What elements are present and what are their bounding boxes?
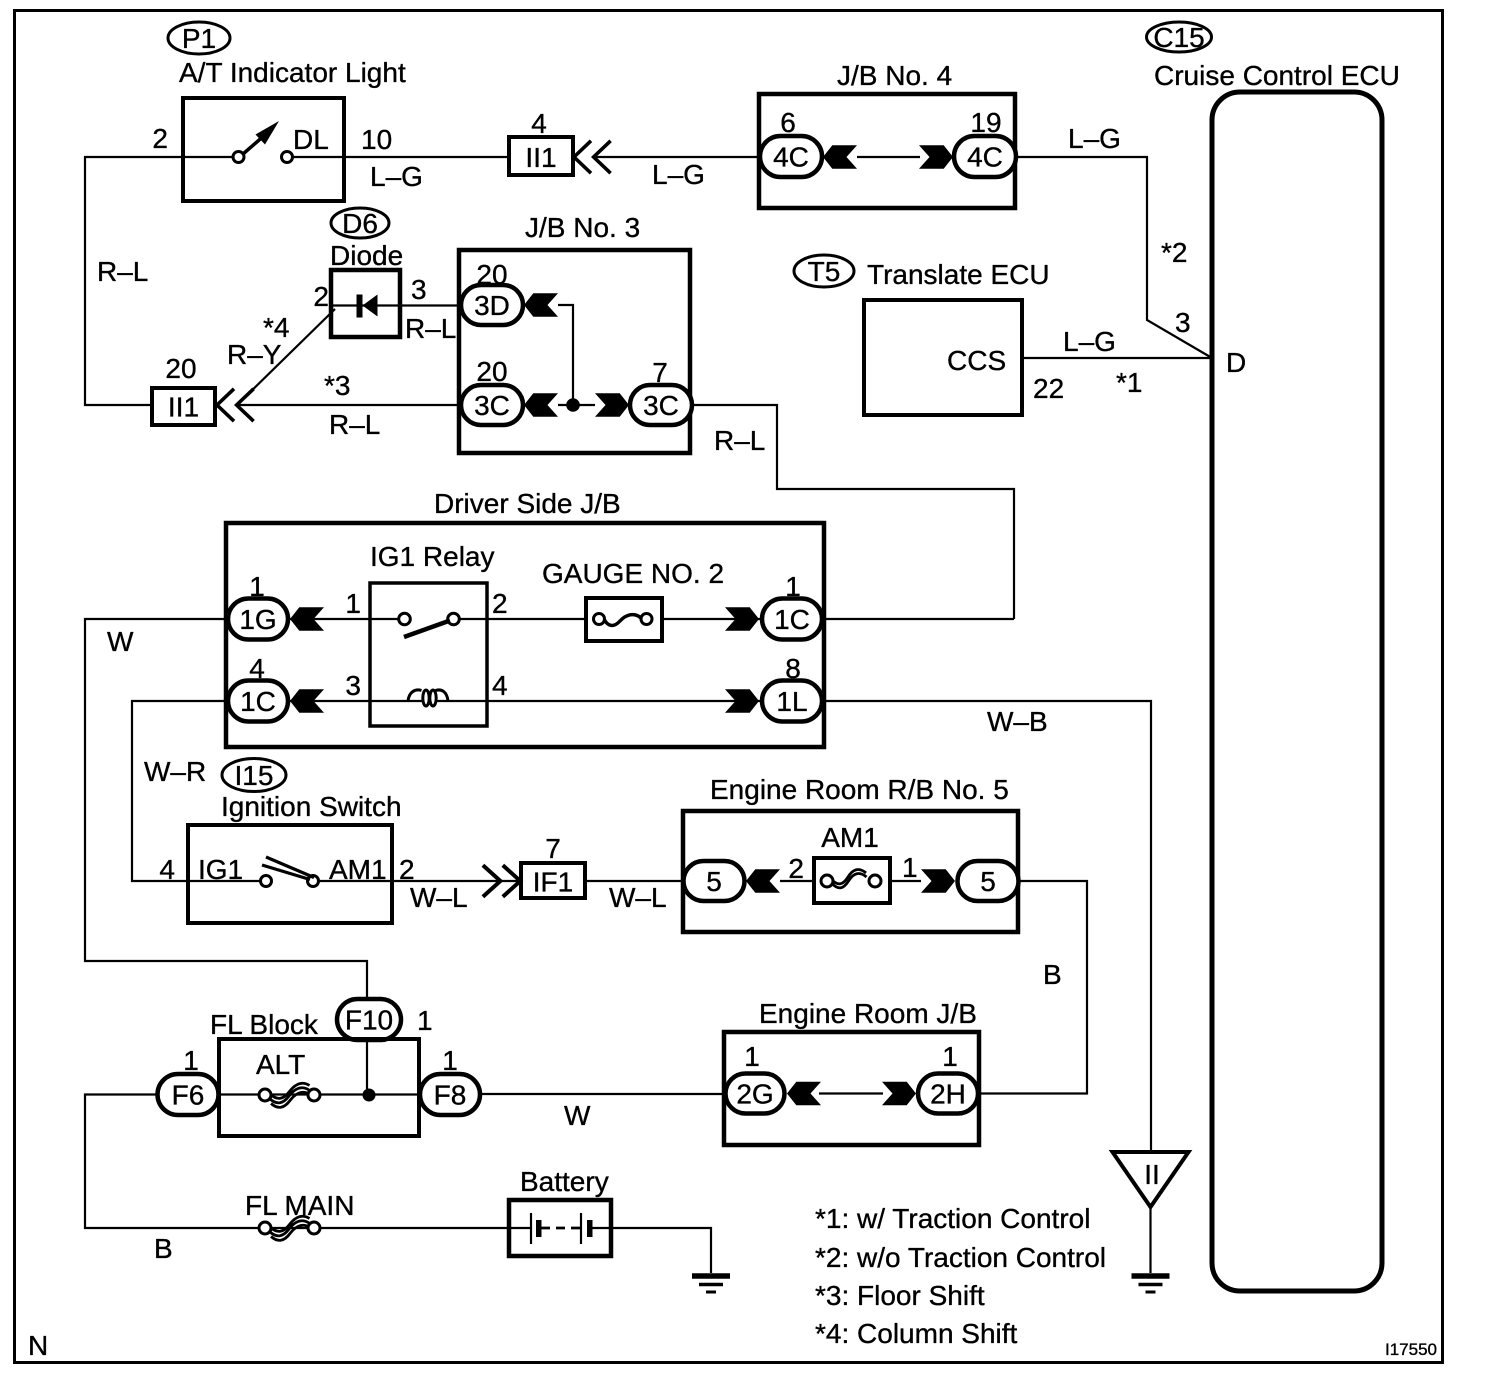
pin 4 ignition xyxy=(159,854,175,885)
wire R-L from A/T pin 2 to II1 xyxy=(85,157,183,405)
svg-text:4C: 4C xyxy=(967,142,1003,173)
wire B 5 to 2H xyxy=(979,881,1087,1094)
label *4 xyxy=(263,312,289,343)
svg-text:20: 20 xyxy=(165,353,196,384)
relay contact left xyxy=(399,613,411,625)
label CCS xyxy=(947,345,1006,376)
svg-text:B: B xyxy=(154,1233,173,1264)
svg-text:7: 7 xyxy=(545,833,561,864)
connector oval F6 xyxy=(158,1074,219,1115)
pin 20 3C xyxy=(476,356,507,387)
note *2 xyxy=(815,1242,1106,1273)
svg-text:R–L: R–L xyxy=(329,409,380,440)
label Driver Side J/B xyxy=(434,488,621,519)
svg-text:DL: DL xyxy=(293,124,329,155)
wire R-L 3C to 1C xyxy=(692,405,1014,619)
component ID I15 xyxy=(222,759,286,792)
svg-text:19: 19 xyxy=(970,107,1001,138)
svg-text:2: 2 xyxy=(152,123,168,154)
ignition contact right xyxy=(308,876,319,887)
diode symbol xyxy=(357,295,378,318)
svg-text:AM1: AM1 xyxy=(821,822,879,853)
pin 4 1C xyxy=(249,653,265,684)
wire between 3C chevrons xyxy=(558,404,595,406)
label *2 xyxy=(1161,237,1187,268)
svg-text:R–L: R–L xyxy=(97,256,148,287)
svg-text:1: 1 xyxy=(249,571,265,602)
ignition switch lever xyxy=(262,857,314,880)
A/T indicator light box P1 xyxy=(183,98,344,201)
wire 1G to relay xyxy=(288,618,370,620)
svg-text:W: W xyxy=(564,1100,591,1131)
chevron into 1G xyxy=(290,607,324,631)
label Engine Room J/B xyxy=(759,998,977,1029)
label A/T Indicator Light xyxy=(179,57,406,88)
svg-text:W: W xyxy=(107,626,134,657)
label L-G right xyxy=(1068,123,1121,154)
label B right xyxy=(1043,959,1062,990)
pin 8 1L xyxy=(785,653,801,684)
connector II1 (top) box xyxy=(509,137,573,175)
wire through ignition switch xyxy=(188,880,392,882)
label N xyxy=(28,1330,48,1361)
pin 4 II1 xyxy=(531,108,547,139)
FL block box xyxy=(219,1039,419,1136)
label FL Block xyxy=(210,1009,319,1040)
chevron out to 1C right xyxy=(725,607,759,631)
svg-text:2: 2 xyxy=(492,588,508,619)
connector oval 1C left xyxy=(228,681,288,722)
connector II1 (bottom) box xyxy=(152,388,215,425)
label Translate ECU xyxy=(867,259,1050,290)
wire through A/T switch xyxy=(183,156,344,158)
label J/B No. 4 xyxy=(837,60,952,91)
svg-text:2G: 2G xyxy=(736,1079,773,1110)
wire 5 to AM1 fuse xyxy=(780,880,814,882)
pin 1 F10 xyxy=(417,1005,433,1036)
svg-text:W–L: W–L xyxy=(609,882,667,913)
chevron into 1C left xyxy=(290,689,324,713)
svg-text:7: 7 xyxy=(652,357,668,388)
wire L-G A/T to II1 connector xyxy=(344,156,509,158)
pin 1 R/B5 xyxy=(902,852,918,883)
pin 3 relay xyxy=(345,670,361,701)
chevron out to 2H xyxy=(882,1082,916,1106)
label Cruise Control ECU xyxy=(1154,60,1400,91)
svg-text:22: 22 xyxy=(1033,373,1064,404)
wire L-G CCS to pin D xyxy=(1022,357,1212,359)
wire inside J/B No.4 xyxy=(857,156,920,158)
label IG1 Relay xyxy=(370,541,495,572)
wire L-G II1 to J/B No.4 xyxy=(594,156,760,158)
label B battery xyxy=(154,1233,173,1264)
chevron into 4C left xyxy=(823,145,857,169)
svg-text:1: 1 xyxy=(744,1041,760,1072)
pin 1 2H xyxy=(942,1041,958,1072)
pin 20 3D xyxy=(476,259,507,290)
label W-L right xyxy=(609,882,667,913)
junction block J/B No.4 box xyxy=(759,94,1015,208)
junction dot J/B No.3 xyxy=(566,398,580,412)
connector IF1 box xyxy=(521,863,585,898)
double open chevron at II1 bottom xyxy=(217,389,254,421)
svg-text:4: 4 xyxy=(492,670,508,701)
svg-text:1: 1 xyxy=(942,1041,958,1072)
translate ECU box xyxy=(864,300,1022,415)
relay coil symbol xyxy=(408,690,448,706)
label *1 xyxy=(1116,367,1142,398)
pin 3 label xyxy=(1175,307,1191,338)
IG1 relay box xyxy=(370,583,487,726)
svg-text:3: 3 xyxy=(1175,307,1191,338)
svg-text:D6: D6 xyxy=(342,208,378,239)
svg-text:20: 20 xyxy=(476,356,507,387)
svg-text:AM1: AM1 xyxy=(329,854,387,885)
chevron into 5 left xyxy=(746,869,780,893)
wire 3D chevron to junction xyxy=(558,305,573,405)
wire fuse to 1C right xyxy=(662,618,763,620)
svg-text:Engine Room J/B: Engine Room J/B xyxy=(759,998,977,1029)
pin 1 1G xyxy=(249,571,265,602)
label L-G mid xyxy=(652,159,705,190)
wire W-B 1L to II triangle xyxy=(822,701,1151,1152)
svg-text:GAUGE NO. 2: GAUGE NO. 2 xyxy=(542,558,724,589)
wire *3 R-L II1 to 3C xyxy=(236,404,461,406)
relay coil wire xyxy=(370,700,487,702)
pin 1 1C xyxy=(785,571,801,602)
battery ground symbol xyxy=(692,1276,730,1292)
svg-text:II: II xyxy=(1144,1159,1160,1190)
component ID T5 xyxy=(794,255,854,287)
connector oval 1C right xyxy=(762,599,822,640)
svg-text:*1: w/ Traction Control: *1: w/ Traction Control xyxy=(815,1203,1090,1234)
svg-text:Driver Side J/B: Driver Side J/B xyxy=(434,488,621,519)
wire W F8 to 2G xyxy=(481,1093,725,1095)
svg-text:R–Y: R–Y xyxy=(227,339,282,370)
svg-text:6: 6 xyxy=(780,107,796,138)
svg-text:3: 3 xyxy=(411,274,427,305)
svg-text:*1: *1 xyxy=(1116,367,1142,398)
svg-text:20: 20 xyxy=(476,259,507,290)
svg-text:L–G: L–G xyxy=(652,159,705,190)
svg-text:W–L: W–L xyxy=(410,882,468,913)
svg-text:Cruise Control ECU: Cruise Control ECU xyxy=(1154,60,1400,91)
wire relay to fuse xyxy=(487,618,586,620)
svg-text:ALT: ALT xyxy=(256,1049,305,1080)
svg-text:*3: Floor Shift: *3: Floor Shift xyxy=(815,1280,985,1311)
fuse contact left xyxy=(594,614,605,625)
relay switch lever xyxy=(404,621,450,638)
pin 2 ignition xyxy=(399,854,415,885)
svg-text:Ignition Switch: Ignition Switch xyxy=(221,791,402,822)
label R-Y xyxy=(227,339,282,370)
svg-text:IF1: IF1 xyxy=(533,867,573,898)
pin 22 label xyxy=(1033,373,1064,404)
connector oval 2H xyxy=(918,1074,978,1114)
svg-text:CCS: CCS xyxy=(947,345,1006,376)
wire L-G 4C to ECU pin D xyxy=(1016,157,1212,358)
engine room J/B box xyxy=(724,1032,979,1145)
svg-text:1C: 1C xyxy=(240,686,276,717)
chevron out toward 3C right xyxy=(595,393,629,417)
junction block J/B No.3 box xyxy=(459,250,690,453)
pin 20 II1 xyxy=(165,353,196,384)
pin 7 IF1 xyxy=(545,833,561,864)
connector oval 3C right xyxy=(630,385,692,425)
chevron out to 1L xyxy=(725,689,759,713)
svg-text:Engine Room R/B No. 5: Engine Room R/B No. 5 xyxy=(710,774,1009,805)
fuse contact right xyxy=(641,614,652,625)
II ground symbol xyxy=(1132,1276,1170,1292)
component ID P1 xyxy=(168,22,230,54)
wire II triangle to ground xyxy=(1149,1207,1151,1273)
pin 2 A/T xyxy=(152,123,168,154)
fusible link FL MAIN xyxy=(270,1216,310,1240)
label W bottom xyxy=(564,1100,591,1131)
svg-text:3D: 3D xyxy=(474,290,510,321)
connector oval 5 right xyxy=(958,861,1019,901)
wire into battery xyxy=(509,1227,531,1229)
svg-text:2H: 2H xyxy=(930,1079,966,1110)
FL MAIN contact left xyxy=(259,1222,271,1234)
wire inside engine room J/B xyxy=(819,1092,883,1094)
wire 1C right to node xyxy=(822,618,1014,620)
svg-text:P1: P1 xyxy=(182,23,216,54)
svg-text:D: D xyxy=(1226,347,1246,378)
svg-text:1: 1 xyxy=(183,1045,199,1076)
pin 7 3C xyxy=(652,357,668,388)
label Battery xyxy=(520,1166,609,1197)
pin 3 diode xyxy=(411,274,427,305)
junction dot FL block xyxy=(363,1089,376,1102)
label W-L left xyxy=(410,882,468,913)
svg-text:J/B No. 4: J/B No. 4 xyxy=(837,60,952,91)
label L-G at CCS xyxy=(1063,326,1116,357)
svg-text:3: 3 xyxy=(345,670,361,701)
label Ignition Switch xyxy=(221,791,402,822)
svg-text:10: 10 xyxy=(361,124,392,155)
svg-text:I17550: I17550 xyxy=(1385,1340,1437,1359)
svg-text:L–G: L–G xyxy=(370,161,423,192)
label Diode xyxy=(330,240,403,271)
label R-L left xyxy=(97,256,148,287)
chevron out of AM1 xyxy=(921,869,955,893)
label FL MAIN xyxy=(245,1190,354,1221)
svg-text:F10: F10 xyxy=(345,1005,393,1036)
svg-text:W–B: W–B xyxy=(987,706,1048,737)
pin 1 F6 xyxy=(183,1045,199,1076)
svg-text:1G: 1G xyxy=(239,604,276,635)
fuse element gauge xyxy=(604,615,641,626)
pin D label xyxy=(1226,347,1246,378)
double open chevron at II1 top xyxy=(574,141,611,173)
wire diode to 3D xyxy=(400,304,461,306)
svg-text:4: 4 xyxy=(531,108,547,139)
svg-text:R–L: R–L xyxy=(714,425,765,456)
svg-text:5: 5 xyxy=(706,866,722,897)
svg-text:II1: II1 xyxy=(168,392,199,423)
label W-B xyxy=(987,706,1048,737)
switch lever with arrow xyxy=(243,121,279,154)
label R-L diode xyxy=(405,313,456,344)
pin 1 2G xyxy=(744,1041,760,1072)
wire 1C left to relay xyxy=(288,700,370,702)
wire W 1G to F10 xyxy=(85,619,367,1000)
note *1 xyxy=(815,1203,1090,1234)
label I17550 xyxy=(1385,1340,1437,1359)
connector oval 4C right xyxy=(954,136,1016,177)
wire W-L ignition to IF1 xyxy=(392,880,521,882)
svg-text:W–R: W–R xyxy=(144,756,206,787)
svg-text:N: N xyxy=(28,1330,48,1361)
connector oval 4C left xyxy=(760,136,822,177)
fuse GAUGE NO.2 box xyxy=(586,598,662,641)
connector oval 3D xyxy=(461,285,523,325)
label R-L floor shift xyxy=(329,409,380,440)
pin 4 relay xyxy=(492,670,508,701)
svg-text:3C: 3C xyxy=(474,390,510,421)
wire through FL block xyxy=(219,1093,420,1095)
pin 1 relay xyxy=(345,588,361,619)
svg-text:Diode: Diode xyxy=(330,240,403,271)
svg-text:1: 1 xyxy=(902,852,918,883)
pin 2 diode xyxy=(313,281,329,312)
fuse AM1 contact left xyxy=(821,875,833,887)
wire F10 into FL block xyxy=(366,1038,368,1095)
svg-text:T5: T5 xyxy=(808,256,841,287)
svg-text:IG1 Relay: IG1 Relay xyxy=(370,541,495,572)
connector oval 1G xyxy=(228,599,288,640)
svg-text:4: 4 xyxy=(159,854,175,885)
svg-text:3C: 3C xyxy=(643,390,679,421)
engine room R/B No.5 box xyxy=(683,811,1018,932)
svg-text:2: 2 xyxy=(788,853,804,884)
switch contact right xyxy=(282,152,293,163)
driver side J/B box xyxy=(226,523,824,747)
svg-text:I15: I15 xyxy=(235,760,274,791)
note *3 xyxy=(815,1280,985,1311)
wire W-R 1C to ignition switch xyxy=(132,701,229,881)
ignition contact left xyxy=(261,876,272,887)
label AM1 fuse xyxy=(821,822,879,853)
connector oval 2G xyxy=(726,1074,785,1114)
connector oval 5 left xyxy=(684,861,745,901)
chevron into 3D xyxy=(524,293,558,317)
label AM1 ignition xyxy=(329,854,387,885)
pin 6 4C xyxy=(780,107,796,138)
battery box xyxy=(509,1200,611,1256)
pin 1 F8 xyxy=(442,1045,458,1076)
svg-text:*2: w/o Traction Control: *2: w/o Traction Control xyxy=(815,1242,1106,1273)
switch contact left xyxy=(233,152,244,163)
svg-text:F8: F8 xyxy=(434,1080,467,1111)
fuse AM1 box xyxy=(814,858,890,903)
svg-text:1: 1 xyxy=(442,1045,458,1076)
diode D6 box xyxy=(331,270,400,337)
wire battery to ground xyxy=(592,1228,711,1273)
component ID D6 xyxy=(331,208,389,239)
svg-text:J/B No. 3: J/B No. 3 xyxy=(525,212,640,243)
connector oval 1L xyxy=(762,681,822,722)
wire W-L IF1 to R/B No.5 xyxy=(585,880,684,882)
label DL xyxy=(293,124,329,155)
label *3 xyxy=(324,370,350,401)
label W-R xyxy=(144,756,206,787)
svg-text:4C: 4C xyxy=(773,142,809,173)
connector oval F8 xyxy=(420,1074,480,1115)
fusible link contact left xyxy=(259,1089,271,1101)
label ALT xyxy=(256,1049,305,1080)
svg-text:A/T Indicator Light: A/T Indicator Light xyxy=(179,57,406,88)
pin 19 4C xyxy=(970,107,1001,138)
svg-text:F6: F6 xyxy=(172,1080,205,1111)
shield ground II triangle xyxy=(1113,1152,1189,1207)
pin 2 R/B5 xyxy=(788,853,804,884)
chevron out of 4C right xyxy=(919,145,953,169)
fuse element AM1 xyxy=(832,870,867,888)
svg-text:8: 8 xyxy=(785,653,801,684)
svg-text:1: 1 xyxy=(345,588,361,619)
svg-text:C15: C15 xyxy=(1153,22,1204,53)
chevron into 2G xyxy=(787,1082,821,1106)
component ID C15 xyxy=(1147,22,1212,53)
double open chevron to IF1 xyxy=(483,865,520,896)
svg-text:L–G: L–G xyxy=(1068,123,1121,154)
pin 2 relay xyxy=(492,588,508,619)
relay switch wire xyxy=(370,618,487,620)
svg-text:L–G: L–G xyxy=(1063,326,1116,357)
label J/B No. 3 xyxy=(525,212,640,243)
relay contact right xyxy=(448,613,460,625)
svg-text:5: 5 xyxy=(980,866,996,897)
battery cell symbol xyxy=(531,1213,593,1244)
label Engine Room R/B No. 5 xyxy=(710,774,1009,805)
fusible link ALT xyxy=(270,1083,310,1107)
pin 10 A/T xyxy=(361,124,392,155)
svg-text:1: 1 xyxy=(785,571,801,602)
svg-text:Translate ECU: Translate ECU xyxy=(867,259,1050,290)
note *4 xyxy=(815,1318,1018,1349)
svg-text:II1: II1 xyxy=(525,142,556,173)
svg-text:1L: 1L xyxy=(776,686,807,717)
connector oval 3C left xyxy=(461,385,523,425)
cruise control ECU outline xyxy=(1212,92,1382,1291)
svg-text:4: 4 xyxy=(249,653,265,684)
label W xyxy=(107,626,134,657)
fuse AM1 contact right xyxy=(869,875,881,887)
svg-text:*2: *2 xyxy=(1161,237,1187,268)
wire relay to 1L xyxy=(487,700,763,702)
label L-G xyxy=(370,161,423,192)
svg-text:R–L: R–L xyxy=(405,313,456,344)
svg-text:Battery: Battery xyxy=(520,1166,609,1197)
wire R-Y diagonal (column shift) xyxy=(240,309,335,402)
svg-text:FL Block: FL Block xyxy=(210,1009,319,1040)
svg-text:B: B xyxy=(1043,959,1062,990)
svg-text:*3: *3 xyxy=(324,370,350,401)
ignition switch box xyxy=(188,825,392,923)
svg-text:IG1: IG1 xyxy=(198,854,243,885)
svg-text:1: 1 xyxy=(417,1005,433,1036)
wire AM1 fuse to 5 xyxy=(890,880,921,882)
svg-text:2: 2 xyxy=(313,281,329,312)
wire through diode xyxy=(331,304,400,306)
wire B F6 to battery xyxy=(85,1095,509,1229)
chevron into 3C left xyxy=(524,393,558,417)
connector oval F10 xyxy=(337,999,401,1040)
FL MAIN contact right xyxy=(308,1222,320,1234)
label IG1 xyxy=(198,854,243,885)
